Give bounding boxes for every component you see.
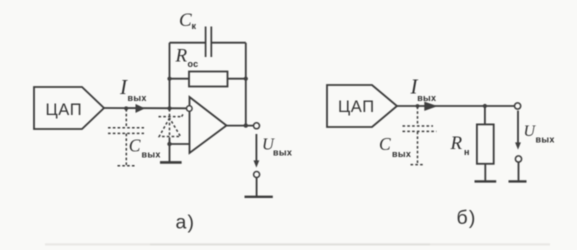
svg-text:вых: вых bbox=[142, 149, 161, 159]
svg-text:C: C bbox=[129, 135, 141, 155]
svg-text:C: C bbox=[179, 10, 192, 31]
svg-text:вых: вых bbox=[273, 148, 292, 158]
svg-text:ос: ос bbox=[188, 59, 199, 69]
svg-text:C: C bbox=[379, 134, 391, 154]
svg-text:а): а) bbox=[176, 211, 196, 233]
svg-text:ЦАП: ЦАП bbox=[46, 101, 83, 119]
svg-text:вых: вых bbox=[536, 135, 555, 145]
svg-text:н: н bbox=[464, 147, 470, 157]
svg-text:вых: вых bbox=[128, 93, 147, 103]
svg-text:б): б) bbox=[457, 207, 477, 229]
svg-text:R: R bbox=[450, 133, 463, 154]
svg-text:вых: вых bbox=[392, 149, 411, 159]
svg-text:к: к bbox=[192, 21, 197, 31]
svg-text:ЦАП: ЦАП bbox=[338, 98, 375, 116]
svg-text:вых: вых bbox=[417, 93, 436, 103]
svg-text:R: R bbox=[175, 45, 188, 66]
